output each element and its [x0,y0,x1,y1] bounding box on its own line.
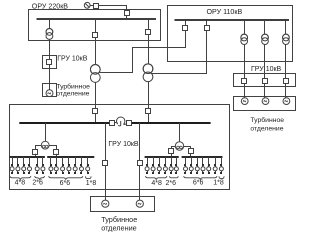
svg-text:ГРУ 10кВ: ГРУ 10кВ [57,56,88,63]
svg-text:1*8: 1*8 [86,180,97,187]
svg-text:отделение: отделение [250,125,283,132]
svg-text:6*6: 6*6 [60,180,71,187]
svg-text:ОРУ 220кВ: ОРУ 220кВ [32,2,69,10]
svg-text:Турбинное: Турбинное [56,82,90,90]
svg-text:отделение: отделение [56,91,89,98]
svg-text:4*8: 4*8 [15,180,26,187]
svg-text:ГРУ 10кВ: ГРУ 10кВ [251,66,282,73]
svg-text:6*6: 6*6 [193,179,204,186]
svg-text:Турбинное: Турбинное [250,116,284,124]
svg-text:отделение: отделение [101,223,137,232]
svg-text:2*6: 2*6 [166,180,177,187]
svg-text:ОРУ 110кВ: ОРУ 110кВ [207,8,243,16]
svg-text:ГРУ 10кВ: ГРУ 10кВ [108,141,139,148]
svg-text:4*8: 4*8 [151,180,162,187]
svg-text:2*6: 2*6 [32,180,43,187]
svg-text:1*8: 1*8 [213,179,224,186]
